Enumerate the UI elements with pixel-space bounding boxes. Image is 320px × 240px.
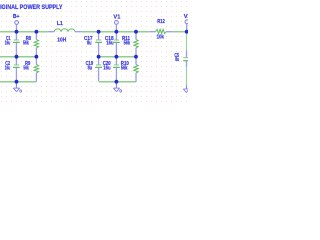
junction C17 top rail [97, 30, 101, 34]
wire top rail right (R12 to V2 node) [173, 31, 187, 33]
svg-text:16u: 16u [5, 41, 11, 47]
node B+ [13, 14, 20, 31]
ground 0 right [183, 86, 188, 93]
svg-text:56k: 56k [23, 66, 28, 72]
wire top rail middle (L1 to R12) [81, 31, 149, 33]
junction R11 top rail [134, 30, 138, 34]
capacitor C2 16u [5, 57, 20, 81]
resistor R8 56k [23, 32, 39, 56]
svg-text:8u: 8u [88, 66, 93, 72]
wire bottom rail left [0, 81, 36, 83]
svg-text:10k: 10k [157, 35, 164, 41]
capacitor C18 16u [105, 32, 120, 56]
svg-text:R12: R12 [157, 19, 165, 25]
junction V1 top rail [115, 30, 119, 34]
svg-text:V1: V1 [113, 14, 121, 20]
wire mid rail middle [99, 56, 136, 58]
junction C18-C20 mid rail [115, 55, 119, 59]
resistor R11 56k [122, 32, 138, 56]
junction R11-R10 mid rail [134, 55, 138, 59]
capacitor C17 8u [84, 32, 102, 56]
svg-text:B+: B+ [13, 14, 20, 20]
wire top rail left (B+ rail to L1) [0, 31, 48, 33]
svg-text:ORIGINAL POWER SUPPLY: ORIGINAL POWER SUPPLY [0, 4, 63, 11]
junction R8 top rail [35, 30, 39, 34]
junction C1-C2 mid rail [15, 55, 19, 59]
junction B+ top rail [15, 30, 19, 34]
resistor R12 10k [149, 19, 173, 41]
svg-text:16u: 16u [103, 66, 110, 72]
svg-text:16u: 16u [5, 66, 11, 72]
ground 0 middle [113, 82, 122, 93]
node V2 [184, 14, 192, 31]
inductor L1 10H [48, 21, 81, 43]
wire bottom rail middle [99, 81, 136, 83]
svg-text:56k: 56k [124, 41, 131, 47]
resistor R9 56k [23, 57, 38, 82]
svg-text:L1: L1 [57, 21, 63, 27]
capacitor C1 16u [5, 32, 20, 56]
node V1 [113, 14, 121, 31]
junction V2 top rail [185, 30, 189, 34]
junction ground middle bottom rail [115, 80, 119, 84]
junction ground left bottom rail [15, 80, 19, 84]
svg-text:8u: 8u [87, 41, 92, 47]
capacitor C5 8u [174, 32, 188, 86]
svg-text:V2: V2 [184, 14, 188, 20]
capacitor C19 8u [86, 57, 102, 81]
resistor R10 56k [121, 57, 138, 82]
wire mid rail left [0, 56, 36, 58]
svg-text:16u: 16u [106, 41, 113, 47]
ground 0 left [13, 82, 22, 93]
svg-text:56k: 56k [121, 66, 128, 72]
junction R8-R9 mid rail [35, 55, 39, 59]
junction C17-C19 mid rail [97, 55, 101, 59]
capacitor C20 16u [103, 57, 120, 81]
svg-text:8u: 8u [175, 57, 179, 63]
svg-text:10H: 10H [57, 37, 66, 43]
svg-text:56k: 56k [23, 41, 29, 47]
